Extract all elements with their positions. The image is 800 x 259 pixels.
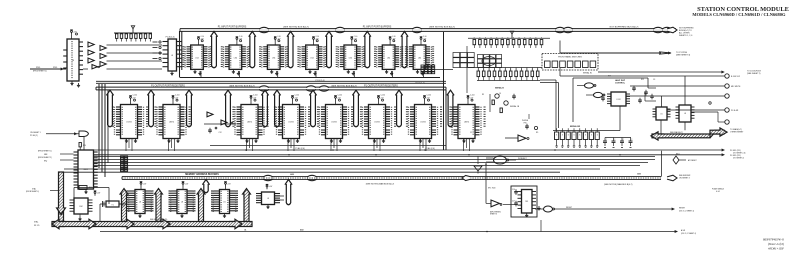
svg-text:ON SHEET 3: ON SHEET 3 [679,178,690,180]
svg-text:FRONT PANEL SWITCHES: FRONT PANEL SWITCHES [558,56,582,59]
svg-text:(SEE SHEET 3): (SEE SHEET 3) [676,55,691,57]
svg-text:SPL 7503: SPL 7503 [488,188,495,190]
svg-text:SERIAL 1B: SERIAL 1B [510,105,520,108]
svg-text:R: R [491,38,492,40]
svg-text:RF 1/5: RF 1/5 [34,225,39,227]
svg-text:S: S [597,134,598,136]
svg-text:RXD: RXD [36,67,41,69]
svg-text:C-104: C-104 [427,95,431,97]
svg-text:C-10: C-10 [354,36,358,38]
svg-text:R: R [516,69,517,71]
svg-text:J2: J2 [427,63,429,65]
svg-text:SERIAL IN: SERIAL IN [583,72,592,75]
svg-text:S: S [568,134,569,136]
svg-text:MODELS CLN6960D / CLN6961D / C: MODELS CLN6960D / CLN6961D / CLN6680G [692,12,786,17]
svg-text:AT RESET: AT RESET [688,159,698,162]
svg-text:MIC MUTE: MIC MUTE [731,86,741,88]
svg-text:LS4: LS4 [195,58,198,60]
svg-text:RESET: RESET [679,208,686,210]
svg-text:R12: R12 [641,79,644,81]
svg-text:LS374: LS374 [464,122,469,124]
svg-text:MEMORY ADDRESS BUFFERS: MEMORY ADDRESS BUFFERS [185,173,219,176]
svg-text:R: R [494,69,495,71]
svg-text:HEP97P4E3W-O: HEP97P4E3W-O [762,238,785,242]
svg-text:C-104: C-104 [133,95,137,97]
svg-text:LS4: LS4 [272,58,275,60]
svg-text:R: R [532,69,533,71]
svg-text:Q1: Q1 [499,93,501,95]
svg-text:S: S [562,134,563,136]
svg-text:C16: C16 [512,189,515,191]
svg-text:R: R [496,38,497,40]
svg-text:R: R [521,69,522,71]
svg-text:SERIAL BD: SERIAL BD [570,125,581,128]
svg-text:R: R [507,38,508,40]
svg-text:LS4: LS4 [310,58,313,60]
svg-text:S: S [556,134,557,136]
svg-text:LS74: LS74 [617,99,621,101]
svg-text:6803: 6803 [84,169,88,171]
svg-text:R: R [479,38,480,40]
svg-text:(FROM SHEET 2): (FROM SHEET 2) [33,71,47,73]
svg-text:S: S [591,134,592,136]
svg-text:R3: R3 [482,94,484,96]
svg-text:C-104: C-104 [295,95,299,97]
svg-text:R: R [483,69,484,71]
svg-text:NMI: NMI [44,154,48,156]
svg-text:NOT BUFFERED BUS B(0-7): NOT BUFFERED BUS B(0-7) [610,27,639,29]
svg-text:CONTROL: CONTROL [615,83,626,85]
svg-text:R20: R20 [83,145,86,147]
svg-text:R22: R22 [89,187,92,189]
svg-text:SHEETS 1, 2, 6: SHEETS 1, 2, 6 [679,35,692,37]
svg-text:(SEE NOTES) MAB BUS B(0-7): (SEE NOTES) MAB BUS B(0-7) [366,183,395,186]
svg-text:(SEE NOTES) BUS B(0-7): (SEE NOTES) BUS B(0-7) [229,86,255,88]
svg-text:SERIAL B: SERIAL B [495,87,504,90]
svg-text:P1 INPUT PORT BUFFERS: P1 INPUT PORT BUFFERS [218,27,247,29]
svg-text:#3D81+1DF: #3D81+1DF [768,247,784,251]
svg-text:P1 A0 (2,6): P1 A0 (2,6) [425,147,435,150]
svg-text:S: S [573,134,574,136]
svg-text:C12: C12 [218,132,221,134]
svg-text:P1 B0 (2): P1 B0 (2) [30,135,38,137]
svg-text:(SEE NOTES) BUS B(0-7): (SEE NOTES) BUS B(0-7) [331,86,357,88]
svg-text:C-104: C-104 [175,95,179,97]
svg-text:(ON #1,#2 SHEET 4): (ON #1,#2 SHEET 4) [679,211,694,213]
svg-text:(FROM SHEET 4): (FROM SHEET 4) [26,191,39,193]
svg-text:(TO SHEET 2,3): (TO SHEET 2,3) [733,152,746,154]
svg-text:S: S [579,134,580,136]
svg-text:R8/1: R8/1 [676,154,680,156]
svg-text:C-104: C-104 [381,95,385,97]
svg-text:R: R [510,69,511,71]
svg-text:SEE MA B(0-7): SEE MA B(0-7) [670,131,683,134]
svg-text:(ON #1,#2 SHEET 4): (ON #1,#2 SHEET 4) [681,233,696,235]
svg-text:555: 555 [525,201,528,203]
svg-text:RESET: RESET [566,207,573,209]
svg-text:XTAL: XTAL [32,188,36,191]
svg-text:PL B 4/8: PL B 4/8 [731,110,738,112]
svg-text:4-14: 4-14 [716,191,720,193]
svg-text:P1 B (0-7): P1 B (0-7) [415,83,424,85]
svg-text:R: R [526,69,527,71]
svg-text:R: R [513,38,514,40]
svg-text:C17: C17 [512,201,515,203]
svg-text:LS374: LS374 [247,122,252,124]
svg-text:R: R [519,38,520,40]
svg-text:(FROM SHEET 2): (FROM SHEET 2) [38,157,52,159]
svg-text:S: S [585,134,586,136]
svg-text:R: R [478,69,479,71]
svg-text:C-10: C-10 [201,36,205,38]
svg-text:R: R [505,69,506,71]
svg-text:A 5/8: A 5/8 [681,229,685,232]
svg-text:R: R [502,38,503,40]
svg-text:C-104: C-104 [338,95,342,97]
svg-text:SEE MA BUS A(0-15): SEE MA BUS A(0-15) [150,218,168,221]
svg-text:R: R [530,38,531,40]
svg-text:(SEE NOTES) BUS B(0-7): (SEE NOTES) BUS B(0-7) [283,27,309,29]
svg-text:C3: C3 [653,79,655,81]
svg-text:P1 OUTPUT PORT REGISTERS: P1 OUTPUT PORT REGISTERS [364,86,398,88]
svg-text:LS374: LS374 [126,122,131,124]
svg-text:OTHER SHEET: OTHER SHEET [730,132,744,134]
svg-text:C1: C1 [470,132,472,134]
svg-text:(TO SHEET 2): (TO SHEET 2) [733,158,744,160]
svg-text:R: R [524,38,525,40]
svg-text:P1 A (2,3): P1 A (2,3) [166,36,175,39]
svg-text:P1 OUTPUT PORT REGISTERS: P1 OUTPUT PORT REGISTERS [151,86,185,88]
svg-text:R17: R17 [608,76,611,78]
svg-text:(FROM SHEET 1): (FROM SHEET 1) [38,151,52,153]
svg-text:C-10: C-10 [316,36,320,38]
svg-text:R: R [535,38,536,40]
svg-text:(SEE NOTES) MAB BUS B(0-7): (SEE NOTES) MAB BUS B(0-7) [604,183,633,186]
svg-text:C-10: C-10 [392,36,396,38]
svg-text:R: R [485,38,486,40]
svg-text:SHEET 3: SHEET 3 [490,214,497,216]
svg-text:P1 INPUT PORT BUFFERS: P1 INPUT PORT BUFFERS [363,27,392,29]
svg-text:R: R [537,69,538,71]
svg-text:P1 A0 (2,6): P1 A0 (2,6) [295,147,305,150]
svg-text:R: R [489,69,490,71]
svg-text:C-104: C-104 [253,95,257,97]
svg-text:C-10: C-10 [423,36,427,38]
svg-text:(SEE NOTES) BUS B(0-7): (SEE NOTES) BUS B(0-7) [429,27,455,29]
svg-text:LS374: LS374 [331,122,336,124]
svg-text:LS4: LS4 [349,58,352,60]
svg-text:XTAL: XTAL [34,221,38,224]
svg-text:LS374: LS374 [420,122,425,124]
svg-text:LS4: LS4 [234,58,237,60]
svg-text:LS374: LS374 [374,122,379,124]
svg-text:RXD: RXD [53,67,58,69]
svg-text:R9: R9 [536,132,538,134]
svg-text:B. MIC 6/2: B. MIC 6/2 [731,76,740,78]
svg-text:LS374: LS374 [169,122,174,124]
svg-text:MAB: MAB [290,173,295,176]
svg-text:LS4: LS4 [418,58,421,60]
svg-text:Y1: Y1 [111,204,113,206]
svg-text:HALF DUP: HALF DUP [615,79,626,82]
svg-text:R: R [474,38,475,40]
svg-text:C-10: C-10 [277,36,281,38]
svg-text:(SEE SHEET 2): (SEE SHEET 2) [747,73,761,75]
svg-text:R: R [499,69,500,71]
svg-text:(Sheet 4 of 6): (Sheet 4 of 6) [768,242,784,246]
svg-text:R: R [541,38,542,40]
svg-text:C-10: C-10 [239,36,243,38]
svg-text:ON SHEET 1: ON SHEET 1 [30,132,41,134]
svg-text:LS374: LS374 [288,122,293,124]
svg-text:LS4: LS4 [387,58,390,60]
svg-text:C-104: C-104 [470,95,474,97]
